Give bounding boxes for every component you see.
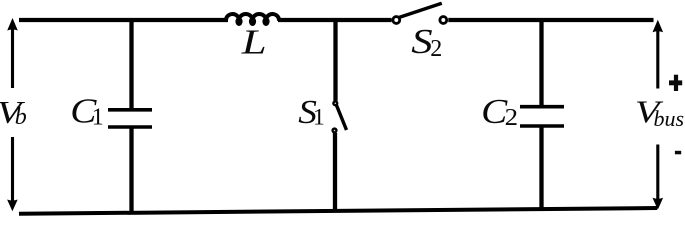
svg-text:L: L <box>241 22 267 61</box>
svg-text:b: b <box>15 104 27 130</box>
svg-text:bus: bus <box>654 106 685 131</box>
svg-text:2: 2 <box>505 103 518 130</box>
svg-text:1: 1 <box>92 105 104 131</box>
svg-text:2: 2 <box>430 36 442 62</box>
svg-text:1: 1 <box>313 105 325 131</box>
